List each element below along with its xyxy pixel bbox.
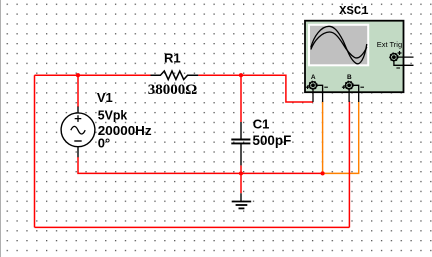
wire: C1 bottom to ground net [240,165,242,193]
svg-text:5Vpk: 5Vpk [98,107,128,122]
scope trace wave B [311,32,367,58]
capacitor C1 [231,122,250,165]
junction node at C1 bottom / ground [239,171,243,175]
oscilloscope screen [308,24,369,67]
polarity mark A plus [306,85,310,89]
wire: V1 minus down to ground net [78,157,241,173]
wire: top horizontal net (source+ to R1) [35,74,151,76]
svg-text:A: A [311,74,316,81]
svg-text:V1: V1 [97,90,113,105]
wire: R1 right to node [198,74,241,76]
pin Ext Trig minus stub [394,57,414,65]
wire: node right toward scope A+ [241,75,313,102]
svg-text:500pF: 500pF [253,132,292,148]
polarity mark Ext Trig plus [398,51,402,55]
wire: V1 plus lead down from top net [77,75,79,107]
pin Ext Trig plus stub [394,56,414,58]
polarity mark B minus [360,86,364,88]
canvas left border [0,0,2,257]
junction node at A-/B- ground tie [321,171,325,175]
wire: orange A- vertical [322,101,324,173]
wire: orange B- vertical and horizontal to junction [323,101,359,173]
wire: node down to C1 top [240,75,242,122]
voltage source V1 body [61,107,95,158]
wire: bottom horizontal of outer loop [35,226,350,228]
polarity mark A minus [324,86,328,88]
wire: left vertical of outer loop [34,75,36,227]
svg-text:C1: C1 [253,116,270,131]
svg-text:0°: 0° [98,135,110,150]
junction node at V1 top [76,73,80,77]
wire: ground net to scope A- junction [241,172,323,174]
ground symbol [232,193,252,208]
junction node at R1/C1 output [239,73,243,77]
svg-text:B: B [347,74,352,81]
svg-text:R1: R1 [164,51,181,66]
pin B plus stub [348,85,350,102]
oscilloscope XSC1 body [305,21,404,93]
terminal A [309,82,316,89]
pin A minus stub [313,85,323,102]
resistor R1 [151,71,199,80]
polarity mark Ext Trig minus [396,67,400,69]
wire: right vertical up to scope B+ [348,101,350,227]
svg-text:XSC1: XSC1 [339,4,368,18]
pin B minus stub [349,85,359,102]
svg-text:Ext Trig: Ext Trig [377,40,402,49]
terminal B [346,82,353,89]
svg-text:38000Ω: 38000Ω [148,82,198,98]
pin A plus stub [312,85,314,102]
terminal Ext Trig [390,54,397,61]
scope trace wave A [311,26,367,64]
polarity mark B plus [342,85,346,89]
